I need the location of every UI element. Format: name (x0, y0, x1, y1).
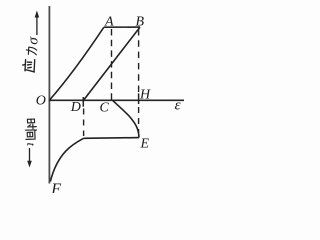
dashed drop line below A (111, 29, 113, 100)
svg-text:σ: σ (25, 36, 42, 45)
hanzi ying (stress) (22, 59, 35, 72)
strain jump segment (below D to E) (84, 137, 139, 140)
dashed line H down to E (138, 107, 140, 133)
creep curve C to E (112, 100, 139, 137)
sigma axis (vertical) (48, 6, 50, 184)
loading line O to A (50, 27, 104, 99)
hanzi shi (time) (27, 119, 36, 129)
svg-text:ε: ε (175, 98, 181, 114)
recovery curve to F (50, 138, 83, 181)
svg-text:A: A (104, 14, 114, 29)
svg-text:H: H (139, 88, 151, 103)
time axis arrow (29, 148, 31, 162)
svg-text:B: B (136, 14, 145, 29)
svg-text:C: C (100, 100, 110, 115)
svg-text:D: D (70, 100, 81, 115)
unloading line B to D (84, 27, 140, 100)
svg-text:F: F (50, 181, 61, 193)
svg-text:t: t (24, 142, 38, 146)
hanzi li (stress) (26, 47, 37, 55)
dashed line D down (83, 109, 85, 137)
stress axis arrow (36, 16, 38, 35)
dashed drop line below B to H (138, 29, 140, 93)
svg-text:O: O (36, 93, 46, 108)
tick at H crossing axis (138, 93, 140, 104)
tick at D crossing axis (82, 97, 84, 107)
svg-text:E: E (140, 136, 150, 151)
epsilon axis (horizontal) (49, 99, 184, 101)
creep line A to B (top) (104, 26, 140, 28)
hanzi jian (time) (26, 130, 37, 140)
